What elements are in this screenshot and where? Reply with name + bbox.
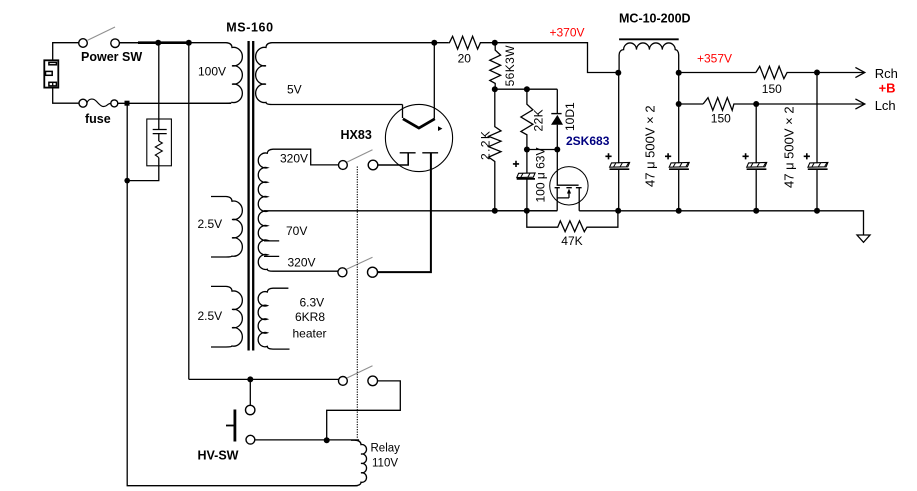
svg-text:20: 20 [458, 51, 472, 65]
capacitor C2 100u63V top lead [526, 150, 528, 174]
wire ground rail right [579, 211, 863, 235]
node top rail snubber [155, 40, 161, 46]
wire HV-SW to relay [255, 439, 359, 441]
MOSFET gate lead [557, 150, 578, 186]
node choke right [676, 70, 682, 76]
svg-text:2.5V: 2.5V [198, 309, 223, 323]
wire S2 to tube anode2 [378, 153, 431, 272]
svg-text:+370V: +370V [550, 26, 585, 40]
capacitor C4 plus [665, 153, 671, 159]
svg-text:MS-160: MS-160 [226, 20, 273, 34]
resistor R7 150 (Lch) [703, 98, 864, 111]
node snubber bottom junction [124, 178, 130, 184]
svg-text:320V: 320V [280, 152, 308, 166]
node relay junction [324, 437, 330, 443]
transformer 6.3V heater winding [258, 288, 289, 349]
node choke right cap rail [676, 208, 682, 214]
svg-text:320V: 320V [288, 256, 316, 270]
wire left vertical x189 [188, 43, 190, 380]
svg-text:5V: 5V [287, 83, 302, 97]
capacitor C2 plates [517, 173, 535, 179]
svg-text:HV-SW: HV-SW [198, 449, 239, 463]
capacitor C2 bottom lead [526, 179, 528, 211]
capacitor C6 plus [804, 153, 810, 159]
capacitor C3 plus [605, 153, 611, 159]
wire plug bottom to fuse [53, 88, 79, 104]
wire thick segment top rail [138, 41, 190, 44]
tube anode plate 2 [422, 152, 438, 154]
MOSFET body arrow [567, 189, 571, 194]
MOSFET Q1 2SK683 envelope [550, 167, 588, 205]
svg-text:Power SW: Power SW [81, 50, 142, 64]
svg-text:110V: 110V [372, 458, 398, 470]
svg-text:56K3W: 56K3W [503, 45, 517, 87]
capacitor C3 plates [610, 163, 630, 170]
wire snubber stem top [158, 43, 160, 119]
transformer 5V winding [256, 43, 449, 105]
resistor R5 47K loop [527, 211, 618, 232]
AC plug P1 [44, 60, 58, 87]
svg-text:150: 150 [711, 112, 731, 126]
HV-SW lower contact [246, 435, 255, 444]
svg-text:10D1: 10D1 [563, 102, 577, 131]
MOSFET channel segments [555, 187, 582, 189]
transformer primary 100V winding [119, 43, 242, 104]
arrow Lch [855, 99, 864, 109]
transformer 2.5V winding 2 [211, 286, 242, 347]
MOSFET drain lead [578, 188, 580, 211]
node Lch cap junction [753, 101, 759, 107]
node rail 100u [524, 208, 530, 214]
resistor R4 22K [521, 89, 533, 149]
node transformer bottom to HV-SW [247, 376, 253, 382]
capacitor C5 plus [743, 153, 749, 159]
svg-text:100V: 100V [198, 65, 226, 79]
capacitor C6 plates [808, 163, 828, 170]
node Lch branch [676, 101, 682, 107]
wire S1 to tube anode1 [378, 153, 408, 165]
node Rch cap junction [814, 70, 820, 76]
svg-text:100 μ 63V: 100 μ 63V [533, 148, 547, 203]
snubber RC box [147, 119, 172, 166]
transformer 2.5V winding 1 [211, 197, 242, 258]
wire rail to choke feed [495, 43, 619, 73]
capacitor C5 47u500V leads [755, 104, 757, 211]
node rail 47K right [615, 208, 621, 214]
svg-text:6KR8: 6KR8 [295, 310, 325, 324]
svg-text:Rch: Rch [875, 66, 898, 81]
wire +357V row [679, 72, 756, 74]
tube getter dot [438, 126, 442, 131]
dotted relay actuation line [356, 167, 358, 439]
resistor R3 2.2K [489, 89, 501, 211]
wire node B [527, 149, 557, 151]
svg-text:150: 150 [762, 82, 782, 96]
switch S3 (relay contact) [339, 366, 378, 386]
capacitor C3 47u500V leads [618, 73, 620, 211]
node A right [524, 86, 530, 92]
diode D1 10D1 wire [556, 89, 558, 149]
wire ground rail left [495, 210, 557, 212]
ground symbol [857, 235, 870, 242]
node rail R2 top [492, 40, 498, 46]
svg-text:Relay: Relay [371, 443, 401, 455]
node A left [492, 86, 498, 92]
node C5 rail [753, 208, 759, 214]
wire S3 to relay loop [327, 381, 401, 440]
capacitor C5 plates [747, 163, 767, 170]
transformer T1 core [249, 41, 254, 351]
MOSFET source lead [557, 188, 569, 211]
relay coil K1 [340, 440, 367, 486]
svg-text:2SK683: 2SK683 [566, 134, 610, 148]
svg-text:2.2K: 2.2K [478, 130, 492, 160]
svg-text:70V: 70V [286, 224, 307, 238]
node top rail left vertical [186, 40, 192, 46]
wire 70V tap [264, 210, 558, 212]
node B right [554, 147, 560, 153]
choke L1 winding [619, 43, 679, 73]
wire Power SW to transformer (top rail left) [119, 42, 158, 44]
node top rail tube [431, 40, 437, 46]
push switch HV-SW stem [249, 379, 251, 405]
svg-text:2.5V: 2.5V [198, 217, 223, 231]
capacitor C2 plus [513, 161, 519, 167]
wire filament left lead [402, 105, 404, 119]
switch Power SW [79, 27, 120, 48]
svg-text:22K: 22K [531, 109, 545, 132]
diode D1 triangle [551, 115, 563, 125]
svg-text:fuse: fuse [85, 112, 111, 126]
wire transformer bottom [189, 378, 339, 380]
choke L1 MC-10-200D core bar [619, 38, 679, 40]
capacitor C6 47u500V leads [816, 73, 818, 211]
svg-text:Lch: Lch [875, 98, 896, 113]
svg-text:heater: heater [293, 326, 327, 340]
arrow Rch [855, 67, 864, 77]
svg-text:HX83: HX83 [341, 128, 372, 142]
tube anode plate 1 [400, 152, 416, 154]
switch S1 (320V upper) [339, 150, 378, 170]
wire tube plate top lead [433, 43, 435, 119]
diode D1 cathode bar [551, 113, 561, 115]
transformer HV winding 320V/70V/320V [258, 149, 338, 271]
wire node A [495, 88, 558, 90]
HV-SW actuator bar [233, 410, 236, 442]
node fuse junction [125, 101, 130, 106]
svg-text:6.3V: 6.3V [300, 296, 325, 310]
tube V1 HX83 envelope [385, 104, 452, 171]
resistor R6 150 (Rch) [756, 66, 864, 78]
HV-SW upper contact [246, 405, 255, 414]
switch S2 (320V lower) [338, 257, 378, 277]
node rail 2.2K [492, 208, 498, 214]
resistor R1 20 [449, 36, 495, 49]
wire left vertical from fuse junction down to bottom [127, 103, 358, 486]
capacitor C4 47u500V leads [678, 73, 680, 211]
capacitor C4 plates [669, 163, 689, 170]
svg-text:47 μ 500V × 2: 47 μ 500V × 2 [781, 106, 796, 188]
svg-text:47K: 47K [561, 234, 582, 248]
svg-text:47 μ 500V × 2: 47 μ 500V × 2 [642, 105, 657, 187]
fuse F1 [79, 99, 118, 107]
node choke left [615, 70, 621, 76]
svg-text:+B: +B [879, 81, 896, 96]
wire snubber bottom stem [127, 166, 159, 181]
wire fuse to primary bottom [118, 102, 231, 104]
svg-text:MC-10-200D: MC-10-200D [619, 12, 691, 26]
HV-SW actuator tick [226, 425, 234, 427]
wire plug top to Power SW [53, 43, 79, 60]
tube filament (thick V) [403, 119, 435, 128]
resistor R2 56K3W [490, 43, 501, 89]
wire 320V lower stub [264, 241, 279, 257]
node C6 rail [814, 208, 820, 214]
wire Lch row [679, 103, 703, 105]
svg-text:+357V: +357V [697, 51, 732, 65]
node B left [524, 147, 530, 153]
